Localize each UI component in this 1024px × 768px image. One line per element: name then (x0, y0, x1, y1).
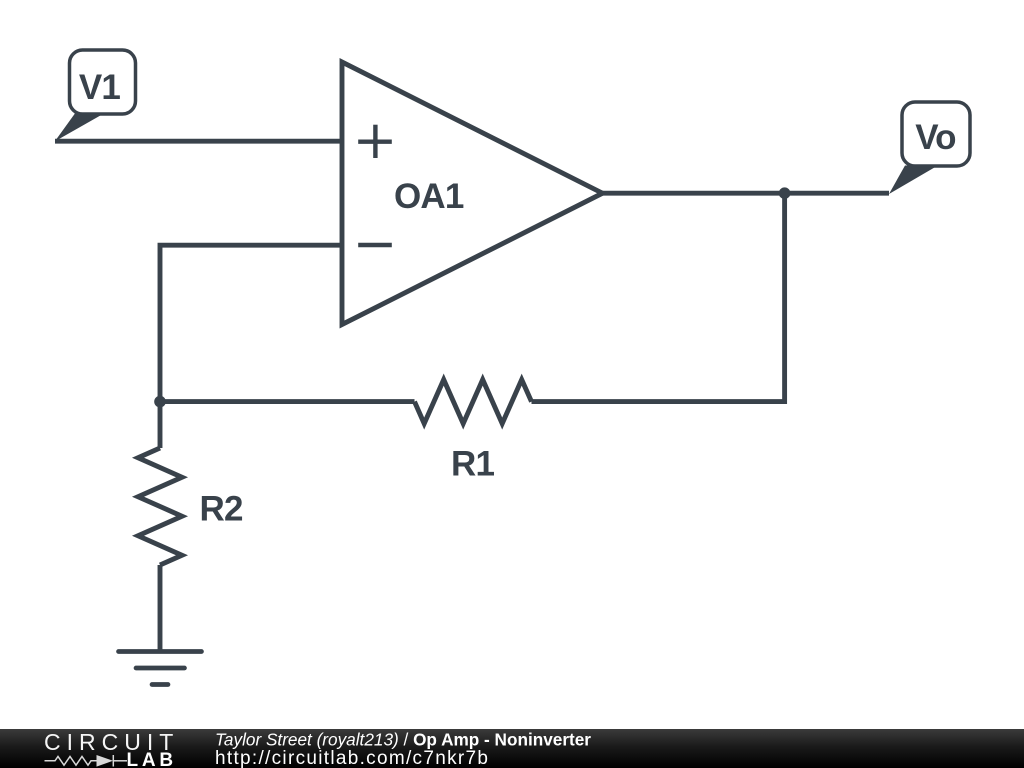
svg-text:Taylor Street (royalt213) / Op: Taylor Street (royalt213) / Op Amp - Non… (215, 729, 591, 749)
svg-text:OA1: OA1 (394, 177, 464, 216)
svg-text:R2: R2 (200, 490, 243, 529)
svg-text:R1: R1 (451, 445, 494, 484)
svg-text:V1: V1 (79, 68, 121, 107)
svg-text:Vo: Vo (915, 118, 956, 157)
svg-text:http://circuitlab.com/c7nkr7b: http://circuitlab.com/c7nkr7b (215, 748, 489, 768)
svg-text:LAB: LAB (127, 750, 177, 768)
